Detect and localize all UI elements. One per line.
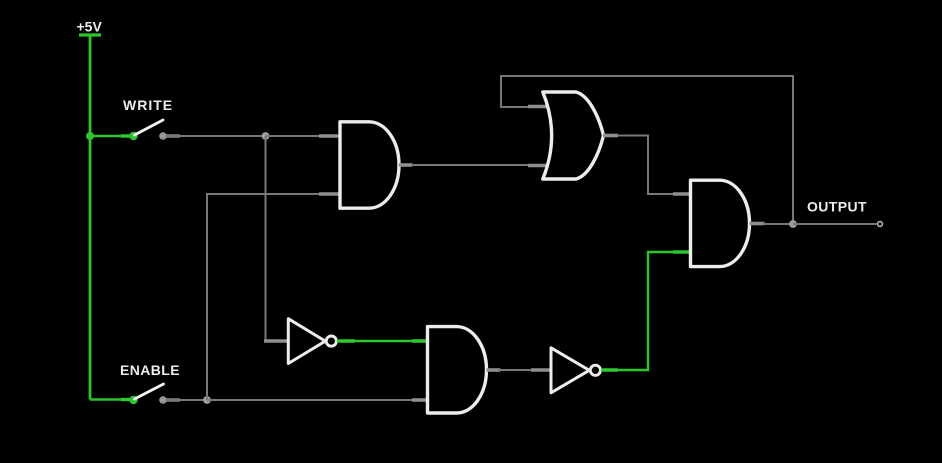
wire: U6 output up to AND U3 input B (green, high) [617, 252, 676, 370]
pin: U2 output stub [603, 134, 618, 138]
and-gate U1 [340, 122, 399, 208]
node: ENABLE line junction [203, 396, 211, 404]
switch SW2 ENABLE (open) [120, 362, 180, 404]
pin: U1 input A stub [319, 134, 341, 138]
svg-text:OUTPUT: OUTPUT [807, 199, 867, 215]
or-gate U2 [543, 92, 604, 179]
pin: U5 input A stub (green) [412, 339, 427, 343]
wire: +5V to WRITE switch pole (green) [90, 135, 134, 137]
svg-text:+5V: +5V [77, 19, 103, 35]
not-gate U6 [551, 348, 601, 393]
wire: U1 output to OR U2 input B [411, 164, 533, 166]
power supply +5V [77, 19, 103, 36]
wire: output node to terminal [793, 223, 877, 225]
wire: WRITE junction down to NOT U4 input [266, 136, 271, 341]
pin: SW1 pole stub (green) [121, 134, 134, 137]
wire: SW1 out stub [166, 134, 180, 137]
pin: U5 output stub [487, 368, 501, 372]
pin: U4 input stub [264, 339, 289, 343]
node: junction +5V rail / WRITE branch [86, 132, 94, 140]
pin: U3 output stub [750, 222, 765, 226]
wire: +5V rail to ENABLE switch pole (green) [90, 398, 134, 400]
pin: U2 input B stub [528, 164, 549, 168]
node: OUTPUT junction [789, 220, 797, 228]
and-gate U3 [691, 180, 750, 266]
node: WRITE line junction [262, 132, 270, 140]
pin: U1 input B stub [319, 192, 341, 196]
pin: U1 output stub [399, 163, 413, 167]
wire: ENABLE junction up to AND U1 input B [207, 194, 322, 400]
wire: ENABLE junction to AND U5 input B [207, 399, 414, 401]
svg-text:WRITE: WRITE [123, 97, 173, 113]
and-gate U5 [428, 327, 487, 413]
pin: U6 input stub [531, 368, 551, 372]
wire: +5V rail down left side (green, high) [89, 35, 92, 400]
pin: U3 input B stub (green) [673, 250, 691, 254]
pin: U6 output stub (green) [601, 368, 618, 371]
wire: SW2 out stub [166, 398, 180, 401]
wire: SW2 output to junction [166, 399, 207, 401]
wire: feedback from output node to OR U2 input A [501, 76, 793, 224]
wire: junction to AND U1 input A [266, 135, 323, 137]
switch SW1 WRITE (open) [123, 97, 173, 140]
terminal: OUTPUT pin [807, 199, 883, 227]
pin: U4 output stub (green) [337, 339, 355, 342]
wire: U4 output to AND U5 input A (green, high) [354, 340, 414, 342]
not-gate U4 [288, 319, 336, 364]
wire: U3 output to output node [763, 223, 793, 225]
wire: SW1 output to junction [166, 135, 266, 137]
pin: U5 input B stub [412, 398, 427, 402]
svg-text:ENABLE: ENABLE [120, 362, 180, 378]
wire: U5 output to NOT U6 input [498, 369, 534, 371]
pin: U3 input A stub [673, 192, 691, 196]
wire: U2 output to AND U3 input A [617, 136, 676, 195]
pin: U2 input A stub [528, 105, 549, 109]
pin: SW2 pole stub (green) [121, 398, 134, 401]
